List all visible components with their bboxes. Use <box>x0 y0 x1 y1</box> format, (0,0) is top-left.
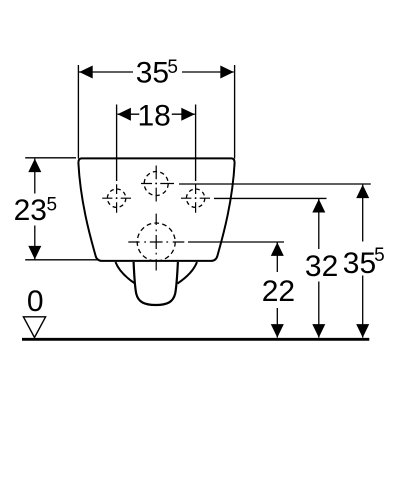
text mask 235 <box>29 194 42 226</box>
svg-text:22: 22 <box>262 275 295 308</box>
dim 22: top arrow <box>271 242 284 256</box>
dim 32: leader line from side hole <box>214 197 327 199</box>
svg-text:32: 32 <box>305 250 338 283</box>
dim 235 left: top arrow <box>28 159 41 173</box>
hole top circle (dashed) <box>144 172 168 196</box>
hole right circle (dashed) <box>186 189 204 207</box>
svg-text:355: 355 <box>343 245 385 280</box>
dim 235 left: bottom extension line <box>25 259 99 261</box>
dim 18: dimension line <box>117 113 194 115</box>
dim 355 top: left arrow <box>79 66 93 79</box>
dim 355 top: right extension line <box>234 65 236 159</box>
dim 18: left extension line <box>116 105 118 182</box>
outlet outer right curve <box>178 262 198 284</box>
outlet inner U tube <box>134 262 178 305</box>
WC pan body outline <box>78 158 234 261</box>
dim 22: dimension line <box>276 242 278 337</box>
dim 355 top: dimension line <box>79 71 234 73</box>
dim 18: right arrow <box>181 108 195 121</box>
dim 22: leader line from bottom hole <box>188 241 284 243</box>
dim 355 top: right arrow <box>220 66 234 79</box>
svg-text:18: 18 <box>138 99 171 132</box>
outlet bottom circle center cross <box>155 214 157 271</box>
zero level triangle marker <box>23 317 45 338</box>
dim 235 left: dimension line <box>34 159 36 260</box>
svg-text:235: 235 <box>14 194 57 227</box>
dim 32: bottom arrow <box>312 324 325 338</box>
dim 355 right: bottom arrow <box>356 324 369 338</box>
hole left circle center cross <box>116 184 118 212</box>
dim 355 right: leader line from top hole <box>179 183 371 185</box>
outlet bottom circle (dashed) <box>137 223 175 261</box>
hole right circle center cross <box>195 184 197 212</box>
dim 32: top arrow <box>312 199 325 213</box>
outlet outer left curve <box>116 262 136 284</box>
text mask top 355 <box>133 55 182 86</box>
dim 355 right: top arrow <box>356 185 369 199</box>
text mask 22 <box>271 272 284 308</box>
dim 18: left arrow <box>117 108 130 121</box>
svg-text:0: 0 <box>27 285 44 318</box>
dim 235 left: bottom arrow <box>28 246 41 260</box>
dim 355 top: left extension line <box>77 65 79 159</box>
text mask 355 right <box>357 242 370 276</box>
hole left circle (dashed) <box>107 189 125 207</box>
text mask 18 <box>139 101 172 127</box>
dim 18: right extension line <box>195 105 197 182</box>
text mask 32 <box>313 249 327 282</box>
hole top circle center cross <box>155 166 157 202</box>
dim 355 right: dimension line <box>362 185 364 338</box>
dim 22: bottom arrow <box>271 324 284 338</box>
dim 235 left: top extension line <box>25 157 76 159</box>
ground line <box>22 338 369 341</box>
dim 32: dimension line <box>318 199 320 338</box>
